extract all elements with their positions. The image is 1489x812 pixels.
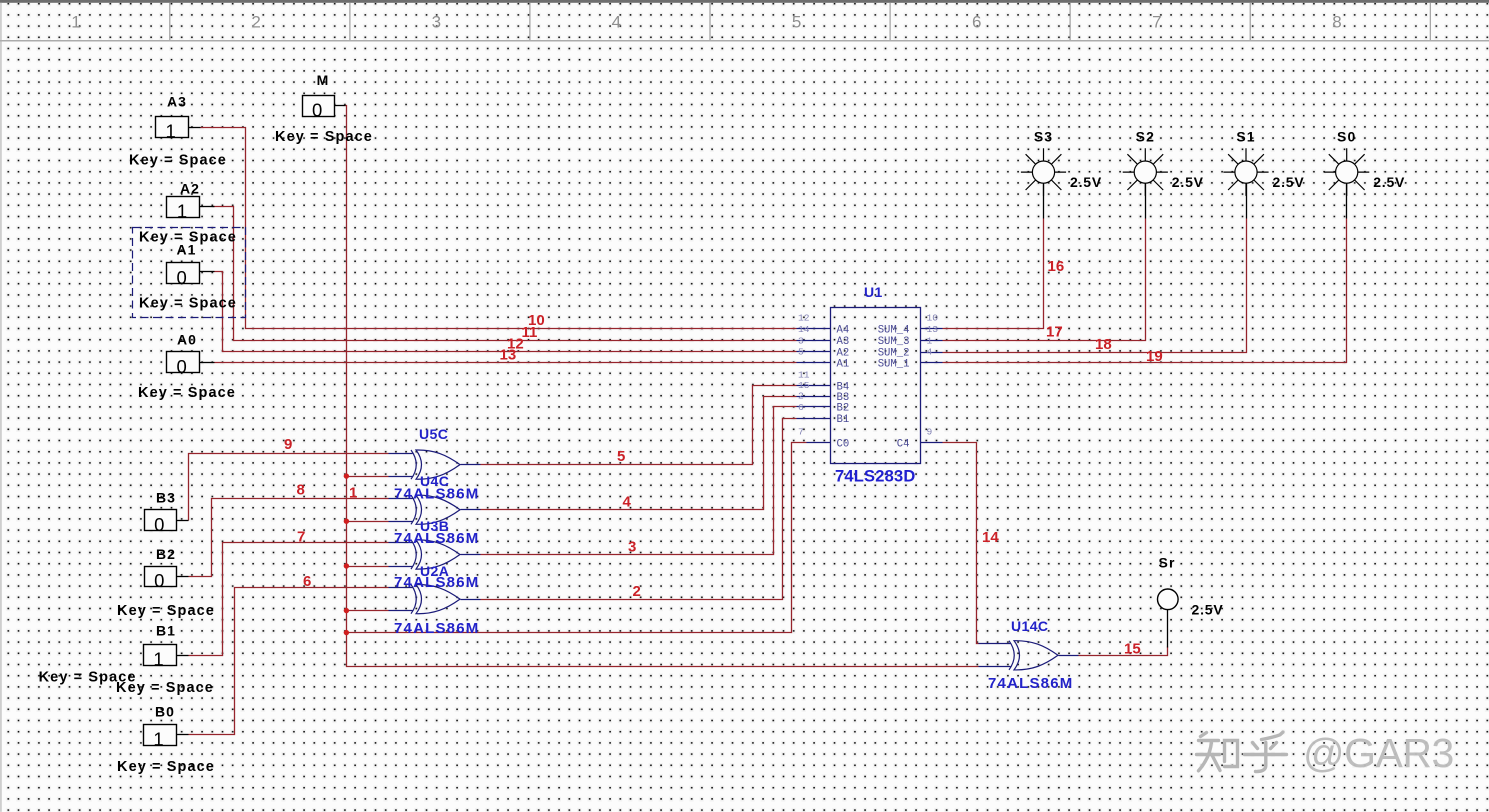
svg-text:14: 14 (798, 324, 810, 335)
wire net 9 B3 switch to U5C input (189, 454, 389, 521)
U5C input stubs (389, 454, 413, 477)
svg-text:10: 10 (927, 313, 939, 324)
svg-text:B0: B0 (155, 704, 175, 720)
lamp S0 (1324, 148, 1369, 218)
svg-text:14: 14 (982, 529, 999, 546)
svg-text:1: 1 (153, 649, 163, 670)
lamp S3 (1021, 148, 1066, 218)
switch M body (303, 96, 346, 117)
xor gate U14C body (1009, 641, 1058, 670)
xor gate U4C body (411, 495, 460, 524)
svg-text:S0: S0 (1337, 128, 1356, 144)
svg-text:U3B: U3B (420, 518, 449, 534)
svg-text:S3: S3 (1034, 128, 1053, 144)
svg-text:SUM_3: SUM_3 (878, 336, 910, 348)
svg-text:6: 6 (303, 573, 311, 590)
svg-text:S1: S1 (1236, 128, 1255, 144)
svg-text:C4: C4 (897, 438, 910, 450)
wire net 8 B2 switch to U4C input (189, 499, 389, 577)
svg-text:3: 3 (798, 336, 804, 347)
wire net 15 U14C output to lamp Sr (1079, 647, 1168, 656)
svg-text:U5C: U5C (419, 426, 448, 442)
svg-text:U4C: U4C (420, 473, 449, 489)
wire net 6 B0 switch to U2A input (189, 588, 389, 735)
U1 right pin stubs (921, 329, 943, 443)
svg-text:15: 15 (798, 380, 810, 391)
U1 left pin names (837, 325, 850, 451)
svg-text:9: 9 (927, 426, 933, 437)
svg-text:U2A: U2A (420, 563, 449, 579)
wire net 3 U3B output to U1 B2 pin2 (481, 407, 797, 555)
wire net 19 U1 SUM2 pin1 to lamp S1 (943, 219, 1247, 353)
svg-text:2.5V: 2.5V (1373, 174, 1405, 190)
svg-text:1: 1 (349, 485, 357, 502)
svg-text:11: 11 (798, 369, 810, 380)
svg-text:B1: B1 (156, 623, 176, 639)
svg-text:SUM_1: SUM_1 (878, 359, 910, 371)
svg-text:7: 7 (1152, 13, 1161, 32)
lamp S2 (1123, 148, 1168, 218)
svg-text:0: 0 (176, 267, 186, 288)
xor gate U5C body (411, 450, 460, 479)
svg-text:12: 12 (798, 313, 810, 324)
switch B1 body (144, 645, 189, 666)
svg-text:15: 15 (1124, 641, 1141, 658)
watermark zhihu characters (1197, 732, 1287, 771)
svg-text:13: 13 (927, 324, 939, 335)
wire net 10 A3 switch to U1 A4 pin12 (201, 128, 797, 329)
U3B input stubs (389, 543, 413, 567)
xor gate U2A body (411, 584, 460, 613)
svg-text:M: M (317, 72, 330, 88)
wire net M branch to U4C input (347, 521, 389, 523)
svg-text:2.5V: 2.5V (1273, 174, 1305, 190)
svg-text:19: 19 (1146, 348, 1163, 365)
svg-text:0: 0 (154, 570, 164, 591)
svg-text:A3: A3 (837, 336, 850, 348)
ruler top border (0, 0, 1489, 3)
selection dashed rectangle around A1 (133, 228, 246, 318)
svg-text:S2: S2 (1136, 128, 1155, 144)
svg-text:Key = Space: Key = Space (117, 603, 215, 619)
svg-text:2.5V: 2.5V (1192, 602, 1224, 618)
wire net 4 U4C output to U1 B3 pin15 (481, 397, 797, 510)
svg-text:3: 3 (432, 13, 441, 32)
wire net 19b U1 SUM1 pin4 to lamp S0 (943, 219, 1347, 363)
U1 right pin names (878, 325, 910, 451)
xor gate U3B body (411, 540, 460, 569)
svg-text:Key = Space: Key = Space (116, 680, 214, 696)
switch A3 body (156, 117, 201, 138)
wire net 7col M branch to U1 C0 pin7 (347, 443, 807, 633)
svg-text:A4: A4 (837, 325, 850, 337)
svg-text:1: 1 (153, 728, 163, 749)
wire net M vertical from M switch (346, 106, 979, 667)
wire net 2 U2A output to U1 B1 pin6 (481, 419, 797, 600)
svg-text:2: 2 (798, 391, 804, 402)
wire net M branch to U3B input (347, 566, 389, 568)
svg-text:Sr: Sr (1159, 554, 1176, 570)
U1 right pin numbers (927, 313, 939, 438)
svg-text:2: 2 (251, 13, 260, 32)
wire net 11 A2 switch to U1 A3 pin14 (213, 207, 797, 341)
svg-text:0: 0 (312, 100, 322, 121)
junction dots on M net (344, 473, 349, 478)
svg-text:3: 3 (628, 539, 636, 556)
svg-text:0: 0 (154, 514, 164, 535)
wire net 18 U1 SUM3 pin13 to lamp S2 (943, 219, 1146, 341)
U3B output stub (461, 554, 481, 556)
wire net 14 U1 C4 pin9 to U14C input (943, 443, 979, 644)
svg-text:U14C: U14C (1011, 618, 1048, 634)
svg-text:1: 1 (927, 336, 933, 347)
svg-text:@GAR3: @GAR3 (1303, 730, 1454, 776)
svg-text:74ALS86M: 74ALS86M (394, 620, 479, 637)
svg-text:A0: A0 (177, 332, 197, 348)
U1 left pin numbers (798, 313, 810, 438)
svg-text:Key = Space: Key = Space (117, 759, 215, 775)
svg-text:5: 5 (792, 13, 801, 32)
lamp Sr (1158, 589, 1179, 648)
svg-text:11: 11 (522, 324, 538, 341)
svg-text:B3: B3 (156, 490, 176, 506)
U5C output stub (461, 464, 481, 466)
svg-text:Key = Space: Key = Space (129, 153, 227, 169)
IC U1 74LS283D body (831, 308, 921, 464)
svg-text:5: 5 (617, 448, 625, 465)
svg-text:4: 4 (927, 347, 933, 358)
lamp S1 (1223, 148, 1268, 218)
page left border (0, 3, 1, 812)
svg-text:1: 1 (177, 201, 187, 222)
switch B0 body (144, 725, 189, 746)
svg-text:2: 2 (633, 583, 641, 600)
svg-text:B2: B2 (837, 403, 850, 415)
U2A output stub (461, 599, 481, 601)
svg-text:A3: A3 (167, 94, 187, 110)
svg-text:74LS283D: 74LS283D (835, 468, 915, 486)
svg-text:1: 1 (166, 121, 176, 142)
U4C output stub (461, 509, 481, 511)
svg-text:4: 4 (623, 494, 632, 511)
svg-text:18: 18 (1095, 336, 1112, 353)
wire net 12 A1 switch to U1 A2 pin3 (215, 272, 797, 352)
svg-text:74ALS86M: 74ALS86M (988, 675, 1073, 692)
svg-text:A1: A1 (176, 242, 196, 258)
wire net M branch to U2A input (347, 610, 389, 612)
U4C input stubs (389, 499, 413, 522)
switch A1 body (167, 263, 215, 284)
switch B2 body (145, 567, 189, 587)
svg-text:2.5V: 2.5V (1172, 174, 1204, 190)
U14C input stubs (979, 644, 1011, 667)
svg-text:U1: U1 (864, 284, 883, 300)
svg-text:8: 8 (1332, 13, 1341, 32)
U14C output stub (1059, 655, 1079, 657)
svg-text:B2: B2 (156, 546, 176, 562)
svg-text:16: 16 (1048, 258, 1065, 275)
svg-text:5: 5 (798, 347, 804, 358)
svg-text:4: 4 (612, 13, 621, 32)
wire net 7 B1 switch to U3B input (189, 543, 389, 656)
svg-text:6: 6 (972, 13, 981, 32)
svg-text:8: 8 (297, 482, 305, 499)
svg-text:B1: B1 (837, 414, 850, 426)
svg-text:A2: A2 (180, 181, 200, 197)
svg-text:17: 17 (1046, 323, 1063, 340)
svg-text:7: 7 (798, 426, 804, 437)
svg-text:SUM_4: SUM_4 (878, 325, 910, 337)
ruler dividers (170, 3, 1431, 40)
svg-text:9: 9 (284, 436, 292, 453)
svg-text:Key = Space: Key = Space (139, 296, 237, 312)
svg-text:Key = Space: Key = Space (275, 129, 373, 145)
svg-text:13: 13 (500, 347, 517, 364)
switch A2 body (167, 197, 215, 218)
wire net M branch to U5C input (347, 476, 389, 478)
wire net 17 U1 SUM4 pin10 to lamp S3 (943, 219, 1044, 329)
svg-text:Key = Space: Key = Space (138, 385, 236, 401)
svg-text:C0: C0 (837, 438, 850, 450)
ruler numbers (71, 13, 1341, 32)
svg-text:1: 1 (71, 13, 80, 32)
switch B3 body (145, 510, 189, 531)
svg-text:2.5V: 2.5V (1070, 174, 1102, 190)
ruler bottom border (0, 40, 1489, 41)
wire net 13 A0 switch to U1 A1 pin5 (215, 362, 797, 364)
switch A0 body (167, 352, 215, 373)
svg-text:A1: A1 (837, 359, 850, 371)
U1 left pin stubs (797, 329, 831, 443)
svg-text:6: 6 (798, 402, 804, 413)
svg-text:7: 7 (297, 528, 305, 545)
U2A input stubs (389, 588, 413, 611)
wire net 5 U5C output to U1 B4 pin11 (481, 386, 797, 465)
svg-text:0: 0 (176, 356, 186, 377)
